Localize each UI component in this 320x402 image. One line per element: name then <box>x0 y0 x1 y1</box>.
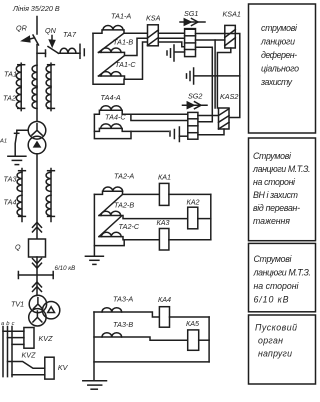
svg-text:деферен-: деферен- <box>261 50 297 60</box>
svg-text:ТА2-В: ТА2-В <box>114 201 134 210</box>
ground <box>83 380 107 382</box>
svg-text:напруги: напруги <box>258 349 292 359</box>
svg-text:SG1: SG1 <box>184 9 198 18</box>
svg-text:КА4: КА4 <box>158 295 171 304</box>
svg-text:ТА3-В: ТА3-В <box>113 320 133 329</box>
ground <box>8 155 26 157</box>
svg-text:KV: KV <box>58 363 69 372</box>
svg-text:КА1: КА1 <box>158 173 171 182</box>
svg-text:ТА1-С: ТА1-С <box>115 60 136 69</box>
TA2 humps <box>16 88 21 109</box>
TA4 humps <box>17 195 22 215</box>
svg-text:QN: QN <box>45 26 57 35</box>
chevrons above Q <box>33 222 42 227</box>
terminal stack SG2 <box>188 112 198 139</box>
svg-text:6/10 кВ: 6/10 кВ <box>254 295 289 305</box>
svg-text:ТА2-С: ТА2-С <box>119 222 140 231</box>
svg-text:захисту: захисту <box>260 77 293 87</box>
legend box 2 <box>249 138 316 241</box>
svg-text:КА2: КА2 <box>187 198 200 207</box>
wire left return <box>93 312 95 380</box>
svg-text:KVZ: KVZ <box>39 334 54 343</box>
svg-text:А1: А1 <box>0 139 7 145</box>
svg-text:ВН і захист: ВН і захист <box>253 190 298 200</box>
terminal stack SG1 <box>185 29 196 57</box>
svg-text:ТА1: ТА1 <box>4 70 17 79</box>
svg-text:ТА3: ТА3 <box>4 175 17 184</box>
chevrons above TV1 <box>33 282 42 287</box>
wire SG2 row1 to KAS2 <box>198 115 219 117</box>
wire phase a feeder <box>20 63 22 110</box>
svg-text:Q: Q <box>15 243 21 252</box>
wire SG1 row1 right loop <box>196 34 240 118</box>
wire left return <box>93 33 124 84</box>
wire bus below QR <box>36 45 38 122</box>
wire bus below transformer <box>36 154 38 239</box>
ground B sideways <box>193 68 195 84</box>
wire bus below Q <box>36 257 38 296</box>
wire right return <box>208 317 210 362</box>
ground C sideways <box>169 131 171 136</box>
svg-text:Лінія 35/220 В: Лінія 35/220 В <box>12 4 60 13</box>
wire diagonal <box>99 217 121 237</box>
transformer T1 delta winding <box>28 136 46 154</box>
svg-text:струмові: струмові <box>261 23 298 33</box>
wire to ground B <box>194 75 240 77</box>
svg-text:KVZ: KVZ <box>22 351 37 360</box>
TA3 humps <box>17 172 22 191</box>
svg-text:SG2: SG2 <box>188 92 202 101</box>
wire SG1 row3 down <box>196 47 213 122</box>
legend box 3 <box>249 243 316 311</box>
wire branch to row2 <box>131 114 188 120</box>
wire phase a feeder lower <box>21 169 23 222</box>
wire KAS2 bottom loop <box>198 129 224 135</box>
legend box 1 <box>249 4 316 133</box>
wire diagonal <box>99 56 125 77</box>
capacitor coupling <box>79 44 81 58</box>
svg-text:Струмові: Струмові <box>254 254 293 264</box>
svg-text:ТА7: ТА7 <box>63 30 77 39</box>
svg-text:ТА4: ТА4 <box>4 198 17 207</box>
svg-text:ланцюги М.Т.З.: ланцюги М.Т.З. <box>253 268 312 278</box>
svg-text:ТА1-А: ТА1-А <box>111 12 131 21</box>
wire left return lower <box>94 114 131 138</box>
wire phase c feeder lower <box>50 169 52 222</box>
svg-text:ланцюги: ланцюги <box>260 37 295 47</box>
svg-text:KSA: KSA <box>146 14 161 23</box>
svg-text:таження: таження <box>253 216 290 226</box>
svg-text:ТА1-В: ТА1-В <box>113 38 133 47</box>
wire left return <box>94 194 124 245</box>
svg-text:Пусковий: Пусковий <box>255 323 297 333</box>
ground A sideways <box>175 51 185 53</box>
wires KSA to SG1 <box>158 32 184 34</box>
svg-text:QR: QR <box>16 24 27 33</box>
wire main bus upper <box>36 17 38 35</box>
wire <box>12 374 45 376</box>
svg-text:ТА4-А: ТА4-А <box>101 93 121 102</box>
svg-text:від переван-: від переван- <box>253 203 300 213</box>
svg-text:ТА2: ТА2 <box>3 94 16 103</box>
TA1 humps <box>16 65 21 86</box>
ground <box>93 246 95 256</box>
svg-text:ТА4-С: ТА4-С <box>105 112 126 121</box>
legend box 4 <box>249 315 316 384</box>
svg-text:TV1: TV1 <box>11 300 24 309</box>
wire SG1 row2 down <box>196 39 225 41</box>
svg-text:6/10 кВ: 6/10 кВ <box>55 265 76 272</box>
svg-text:KSA1: KSA1 <box>223 10 241 19</box>
busbar 6/10 kV <box>18 274 53 276</box>
wire diagonal <box>99 194 123 215</box>
svg-text:КА3: КА3 <box>157 218 170 227</box>
wire KSA1 bottom <box>217 48 230 108</box>
wire bottom return <box>94 361 209 363</box>
wire right return <box>210 194 212 239</box>
wire <box>3 330 24 332</box>
transformer T1 star winding <box>28 122 46 140</box>
wire diagonal <box>99 33 125 52</box>
chevrons below Q <box>33 259 42 264</box>
svg-text:ТА2-А: ТА2-А <box>114 172 134 181</box>
svg-text:Струмові: Струмові <box>253 151 292 161</box>
svg-text:ланцюги М.Т.З.: ланцюги М.Т.З. <box>252 164 311 174</box>
svg-text:на стороні: на стороні <box>253 177 296 187</box>
svg-text:КА5: КА5 <box>186 319 200 328</box>
svg-text:ТА3-А: ТА3-А <box>113 295 133 304</box>
svg-text:орган: орган <box>258 336 283 346</box>
wire phase lines <box>2 327 4 377</box>
wire phase c feeder <box>50 63 52 110</box>
svg-text:на стороні: на стороні <box>254 281 300 291</box>
svg-text:KAS2: KAS2 <box>220 92 238 101</box>
svg-text:ціального: ціального <box>261 64 299 74</box>
